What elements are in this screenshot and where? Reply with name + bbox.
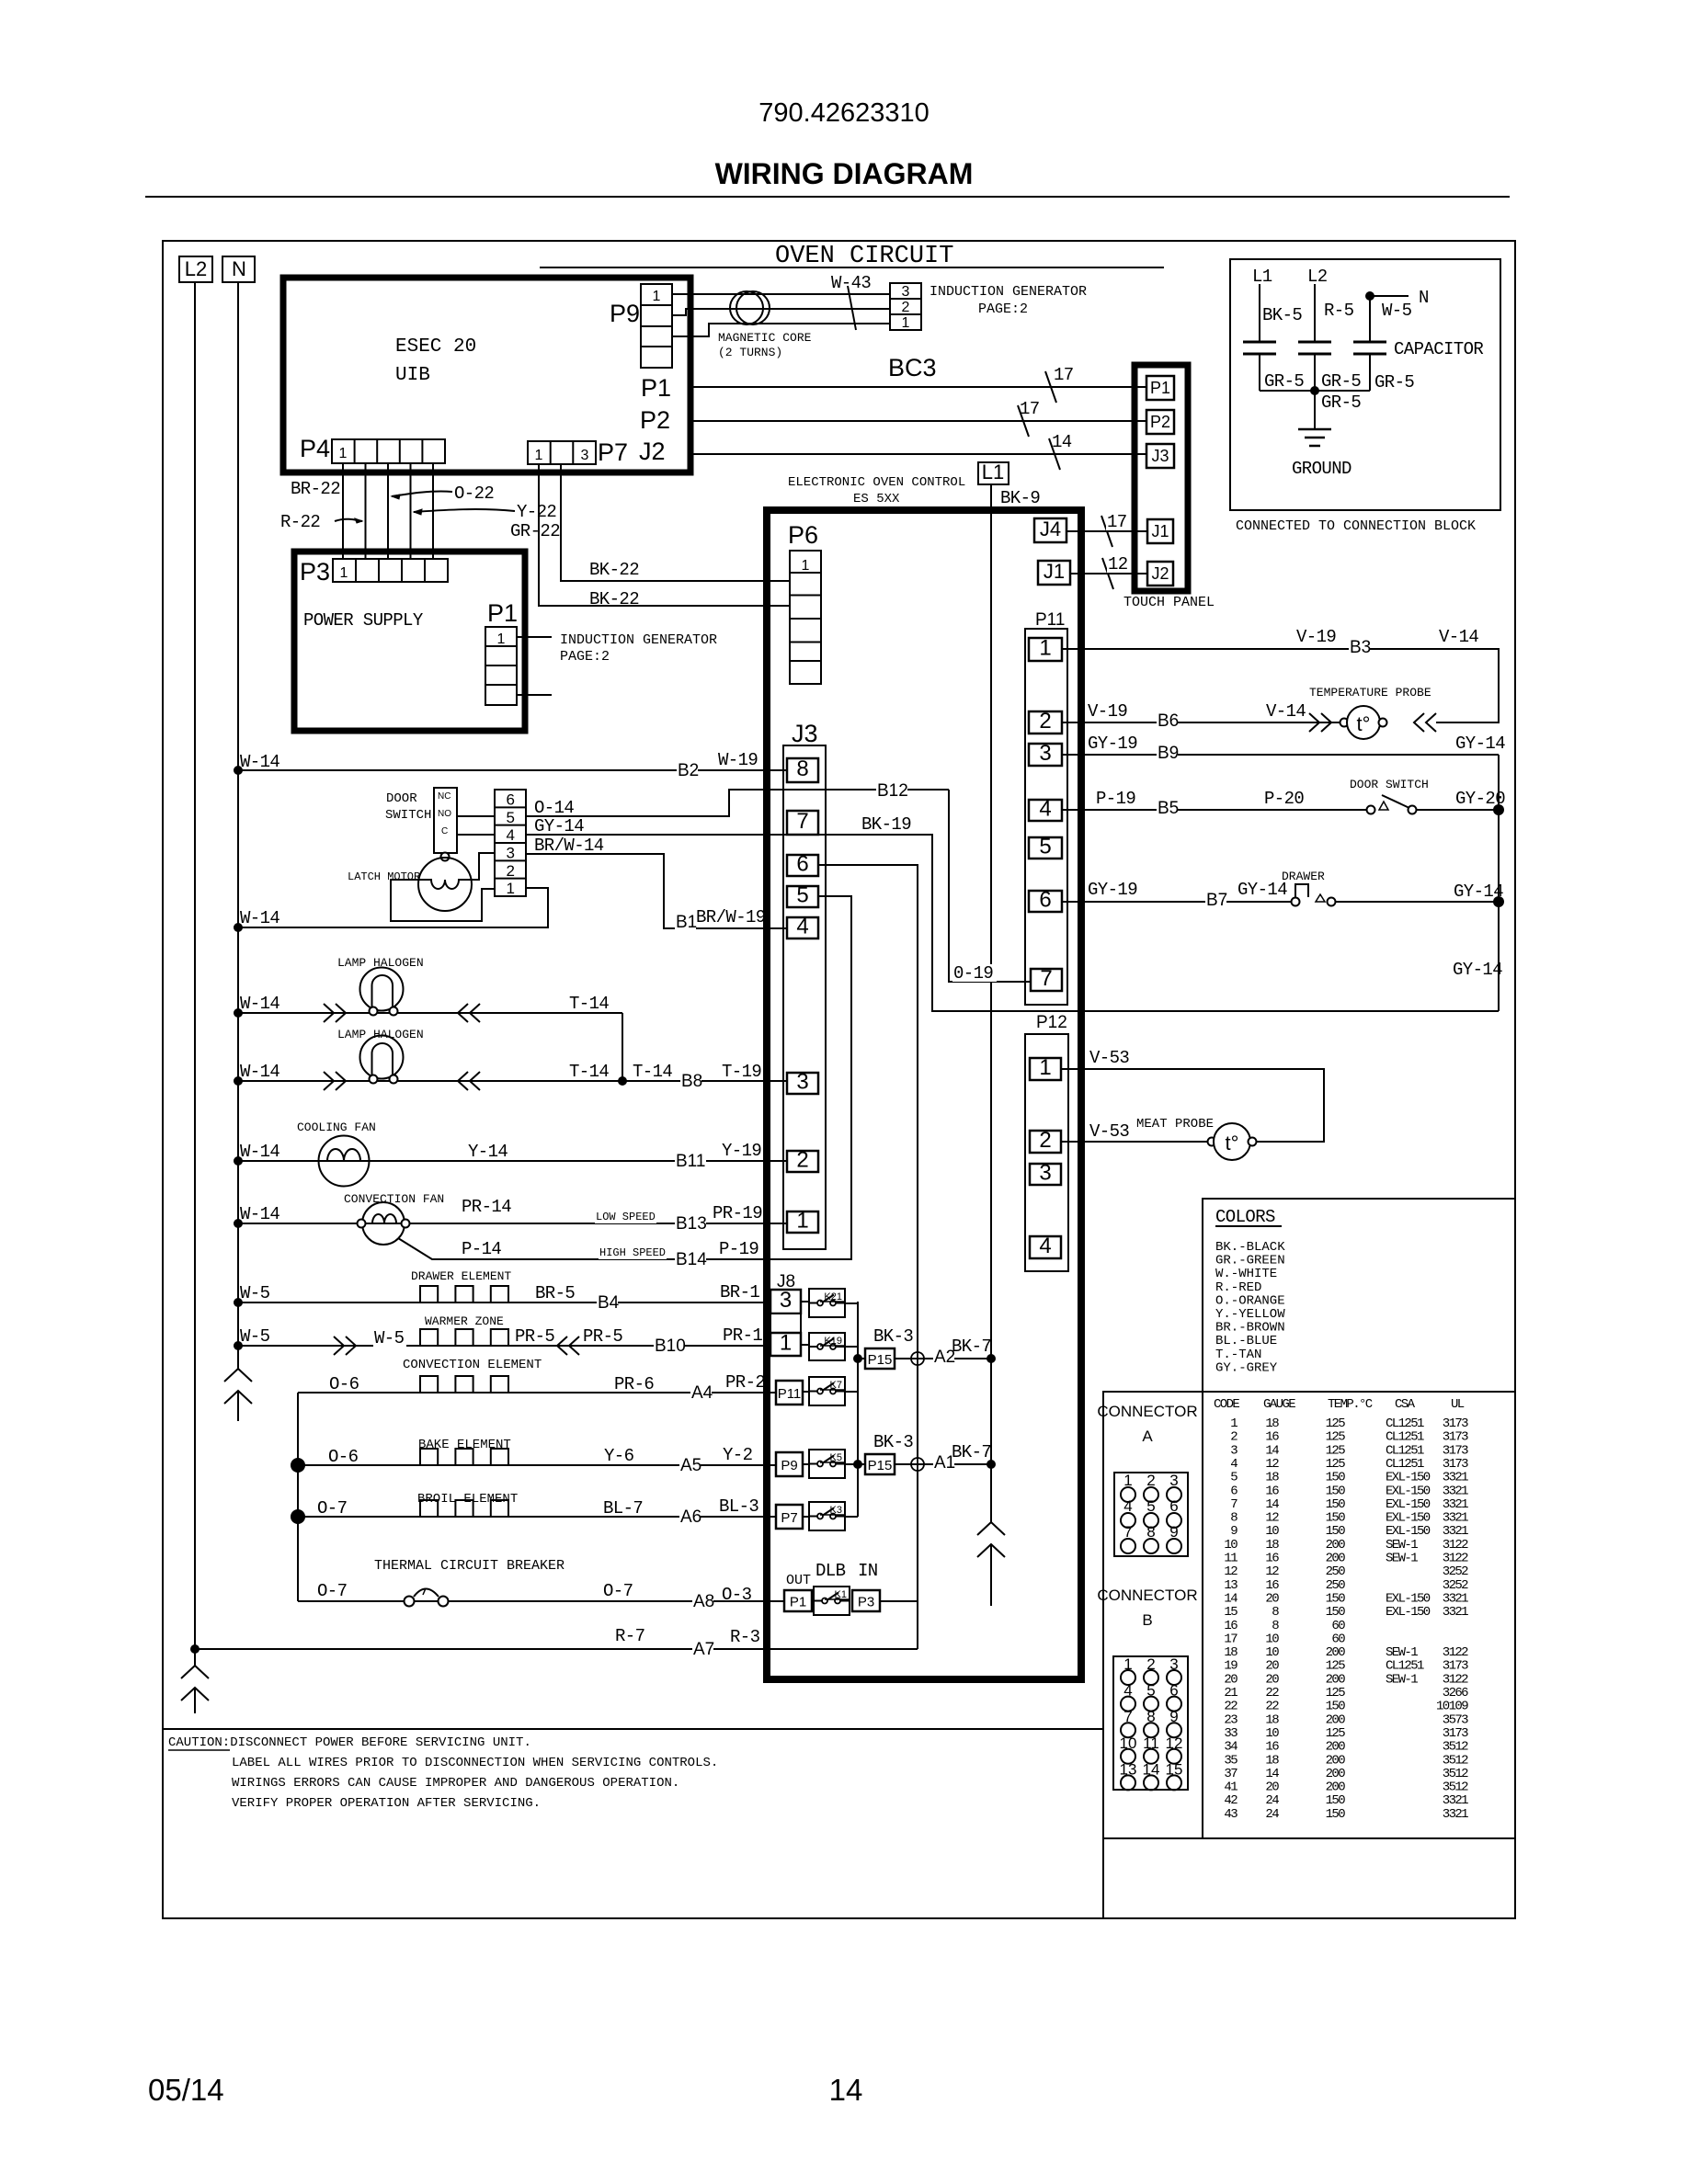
- svg-text:150: 150: [1326, 1793, 1346, 1808]
- svg-text:200: 200: [1326, 1780, 1346, 1795]
- svg-text:O-7: O-7: [317, 1498, 347, 1519]
- broil element heater: [420, 1500, 508, 1517]
- svg-text:11: 11: [1224, 1552, 1237, 1566]
- svg-text:CSA: CSA: [1395, 1397, 1416, 1412]
- svg-text:GR-5: GR-5: [1374, 372, 1414, 392]
- svg-text:4: 4: [796, 915, 808, 939]
- svg-text:18: 18: [1265, 1416, 1279, 1431]
- svg-text:3: 3: [1039, 741, 1051, 766]
- rail L2 end arrow: [194, 1649, 196, 1666]
- wire P11 pin4 P-19/B5/P-20 to door switch: [1062, 809, 1368, 811]
- svg-text:TEMP.°C: TEMP.°C: [1328, 1397, 1373, 1412]
- svg-text:3321: 3321: [1443, 1511, 1468, 1526]
- svg-text:250: 250: [1326, 1578, 1346, 1593]
- connector J8 pin 1: [770, 1333, 801, 1356]
- svg-text:P7: P7: [598, 438, 628, 466]
- wire B12 label: [876, 782, 907, 800]
- svg-text:3122: 3122: [1443, 1645, 1468, 1660]
- svg-text:7: 7: [1040, 966, 1052, 991]
- svg-text:6: 6: [507, 791, 515, 809]
- relay K1 (DLB): [814, 1587, 850, 1615]
- svg-text:12: 12: [1265, 1511, 1279, 1526]
- svg-text:19: 19: [1224, 1659, 1237, 1674]
- wire BR/W-14 from pin3 to J3 pin4: [526, 854, 787, 928]
- svg-text:1: 1: [497, 631, 506, 647]
- junction dot drawer GY-14: [1493, 896, 1504, 907]
- tick 17 on P2 wire: [1018, 405, 1029, 437]
- svg-text:GY-14: GY-14: [1453, 960, 1502, 980]
- splice chevrons lamp1 left: [324, 1004, 334, 1022]
- svg-text:05/14: 05/14: [148, 2073, 224, 2107]
- svg-text:GR.-GREEN: GR.-GREEN: [1215, 1254, 1285, 1268]
- svg-text:A6: A6: [680, 1507, 701, 1527]
- svg-text:BK-3: BK-3: [873, 1432, 913, 1452]
- svg-text:V-53: V-53: [1089, 1048, 1129, 1068]
- svg-text:15: 15: [1224, 1605, 1237, 1620]
- wire BK-22 lower from P7 pin1 to P6: [539, 464, 790, 606]
- svg-text:MEAT PROBE: MEAT PROBE: [1136, 1117, 1214, 1132]
- svg-text:B6: B6: [1158, 711, 1179, 731]
- connector P12 outer box: [1025, 1034, 1068, 1271]
- svg-text:12: 12: [1224, 1564, 1237, 1579]
- P12 pin 2: [1030, 1131, 1061, 1153]
- wire P1 pin1 stub: [517, 636, 552, 638]
- svg-text:22: 22: [1265, 1700, 1279, 1714]
- svg-text:12: 12: [1265, 1457, 1279, 1472]
- svg-text:125: 125: [1326, 1726, 1346, 1741]
- svg-text:LABEL ALL WIRES PRIOR TO DISCO: LABEL ALL WIRES PRIOR TO DISCONNECTION W…: [232, 1756, 718, 1770]
- svg-text:A8: A8: [693, 1592, 714, 1611]
- wire W-5 warmer zone row to J8 pin1: [238, 1345, 770, 1347]
- wire P12 pin2 V-53 to meat probe: [1061, 1141, 1208, 1143]
- svg-text:O.-ORANGE: O.-ORANGE: [1215, 1293, 1285, 1308]
- svg-text:EXL-150: EXL-150: [1386, 1591, 1431, 1606]
- caution area divider line: [163, 1728, 1103, 1730]
- svg-text:TOUCH PANEL: TOUCH PANEL: [1123, 595, 1215, 610]
- svg-text:GY-19: GY-19: [1088, 880, 1137, 900]
- svg-text:125: 125: [1326, 1457, 1346, 1472]
- splice chevrons lamp1 right: [458, 1004, 468, 1022]
- svg-text:24: 24: [1265, 1807, 1279, 1822]
- wire label A6: [679, 1508, 701, 1526]
- touch panel pin P2: [1146, 410, 1174, 434]
- svg-text:3173: 3173: [1443, 1430, 1468, 1445]
- svg-text:10: 10: [1224, 1538, 1237, 1553]
- cooling fan motor: [319, 1136, 370, 1187]
- pin box J1: [1038, 561, 1070, 585]
- relay K5: [809, 1450, 845, 1478]
- touch panel pin P1: [1146, 376, 1174, 400]
- svg-text:VERIFY PROPER OPERATION AFTER: VERIFY PROPER OPERATION AFTER SERVICING.: [232, 1796, 541, 1811]
- J3 pin 1: [787, 1211, 818, 1233]
- wire harness P4 to P3: [342, 463, 344, 559]
- svg-text:3173: 3173: [1443, 1726, 1468, 1741]
- connector J8 middle cell: [770, 1314, 801, 1333]
- wire P1 to touch panel P1: [690, 386, 1146, 388]
- connector table box: [1103, 1392, 1515, 1838]
- svg-text:2: 2: [507, 862, 515, 880]
- connector A grid box: [1114, 1473, 1188, 1556]
- svg-text:10: 10: [1265, 1632, 1279, 1646]
- svg-text:L2: L2: [185, 257, 207, 280]
- connector P1 cells (power supply): [485, 627, 517, 705]
- svg-text:3321: 3321: [1443, 1605, 1468, 1620]
- svg-text:1: 1: [535, 448, 543, 463]
- convection fan motor: [362, 1202, 405, 1245]
- svg-text:14: 14: [1224, 1591, 1237, 1606]
- svg-text:W-43: W-43: [831, 273, 871, 293]
- convection element heater: [420, 1376, 508, 1393]
- svg-text:BC3: BC3: [888, 354, 937, 381]
- svg-text:200: 200: [1326, 1753, 1346, 1768]
- svg-text:12: 12: [1108, 554, 1128, 574]
- induction generator connector cells: [890, 283, 921, 330]
- wire label PR-5 left: [514, 1327, 558, 1345]
- svg-text:V-53: V-53: [1089, 1121, 1129, 1142]
- svg-text:1: 1: [340, 565, 348, 581]
- svg-text:L2: L2: [1307, 267, 1328, 287]
- svg-text:V-19: V-19: [1088, 701, 1127, 722]
- svg-text:P-20: P-20: [1264, 789, 1304, 809]
- svg-text:6: 6: [1039, 888, 1051, 913]
- wire O-6 bake element row to P9 relay: [298, 1464, 776, 1466]
- svg-text:P9: P9: [610, 300, 640, 327]
- pin box P11 (relay K7 input): [776, 1381, 803, 1405]
- svg-text:14: 14: [1052, 432, 1072, 452]
- svg-text:P11: P11: [778, 1386, 802, 1402]
- svg-text:J3: J3: [792, 720, 818, 747]
- connector P4 cells: [332, 439, 445, 463]
- lamp halogen 2: [360, 1036, 404, 1079]
- connector P6 cells: [790, 551, 821, 684]
- svg-text:200: 200: [1326, 1645, 1346, 1660]
- svg-text:P6: P6: [788, 521, 818, 549]
- svg-text:Y-2: Y-2: [723, 1445, 753, 1465]
- junction dot lamp rows: [618, 1076, 627, 1086]
- P11 pin 2: [1029, 711, 1062, 734]
- pin box P9 (relay K5 input): [776, 1452, 803, 1476]
- svg-text:O-3: O-3: [722, 1585, 752, 1605]
- svg-text:B7: B7: [1206, 891, 1227, 910]
- svg-text:B12: B12: [877, 781, 908, 801]
- svg-text:C: C: [441, 826, 448, 836]
- svg-text:J3: J3: [1151, 447, 1169, 465]
- svg-text:(2 TURNS): (2 TURNS): [718, 346, 782, 359]
- svg-text:CL1251: CL1251: [1386, 1457, 1424, 1472]
- wire J8 pin3 to relay K21: [801, 1301, 809, 1302]
- svg-text:P-19: P-19: [1096, 789, 1135, 809]
- svg-text:CAPACITOR: CAPACITOR: [1394, 339, 1483, 359]
- wire C1 to ground bus: [1259, 354, 1260, 391]
- svg-text:A5: A5: [680, 1456, 701, 1475]
- svg-text:BK-7: BK-7: [952, 1442, 991, 1462]
- pin box J4: [1034, 518, 1066, 542]
- svg-text:EXL-150: EXL-150: [1386, 1524, 1431, 1539]
- wire O-14 from pin5 to B12: [526, 790, 949, 816]
- svg-text:O-7: O-7: [603, 1581, 633, 1601]
- svg-text:17: 17: [1107, 512, 1127, 532]
- svg-text:1: 1: [780, 1331, 792, 1356]
- J3 pin 4: [787, 917, 818, 938]
- svg-text:18: 18: [1265, 1471, 1279, 1485]
- svg-text:DOOR SWITCH: DOOR SWITCH: [1350, 778, 1429, 791]
- relay K3: [809, 1502, 845, 1530]
- svg-text:GR-5: GR-5: [1321, 392, 1361, 413]
- svg-text:PR-19: PR-19: [713, 1203, 762, 1223]
- outer border frame: [163, 241, 1515, 1918]
- splice chevrons lamp2 left: [324, 1072, 334, 1090]
- svg-text:EXL-150: EXL-150: [1386, 1497, 1431, 1512]
- svg-text:T-14: T-14: [633, 1062, 672, 1082]
- svg-text:W-5: W-5: [374, 1328, 405, 1348]
- svg-text:Y-6: Y-6: [604, 1446, 634, 1466]
- svg-text:200: 200: [1326, 1672, 1346, 1687]
- svg-text:T-19: T-19: [722, 1062, 761, 1082]
- svg-text:CL1251: CL1251: [1386, 1430, 1424, 1445]
- temperature probe: [1340, 719, 1349, 727]
- svg-text:BK-7: BK-7: [952, 1337, 991, 1357]
- svg-text:16: 16: [1265, 1484, 1279, 1498]
- svg-text:GY-14: GY-14: [534, 816, 584, 836]
- rail BK-7 junction dot A2: [987, 1354, 996, 1363]
- svg-text:17: 17: [1054, 365, 1074, 385]
- svg-text:OUT: OUT: [786, 1573, 811, 1588]
- svg-text:200: 200: [1326, 1767, 1346, 1781]
- svg-text:1: 1: [1230, 1416, 1237, 1431]
- J3 pin 6: [787, 855, 818, 876]
- svg-text:24: 24: [1265, 1793, 1279, 1808]
- svg-text:CONNECTOR: CONNECTOR: [1097, 1587, 1197, 1604]
- wire label W-5 mid: [373, 1329, 406, 1347]
- svg-text:CL1251: CL1251: [1386, 1659, 1424, 1674]
- wire J2 to touch panel J3: [690, 453, 1146, 455]
- svg-text:150: 150: [1326, 1700, 1346, 1714]
- capacitor C3 plates: [1353, 341, 1386, 344]
- svg-text:200: 200: [1326, 1712, 1346, 1727]
- svg-text:CAUTION:DISCONNECT POWER BEFOR: CAUTION:DISCONNECT POWER BEFORE SERVICIN…: [168, 1735, 531, 1750]
- touch panel pin J2: [1147, 562, 1173, 586]
- svg-text:20: 20: [1265, 1780, 1279, 1795]
- P11 pin 6: [1029, 891, 1062, 912]
- svg-text:23: 23: [1224, 1712, 1237, 1727]
- wire P9 pin2 to induction generator pin2: [672, 309, 890, 315]
- svg-text:3173: 3173: [1443, 1416, 1468, 1431]
- svg-text:INDUCTION GENERATOR: INDUCTION GENERATOR: [930, 284, 1087, 300]
- svg-text:P2: P2: [1150, 413, 1170, 431]
- svg-text:125: 125: [1326, 1659, 1346, 1674]
- svg-text:3512: 3512: [1443, 1753, 1468, 1768]
- svg-text:4: 4: [1039, 1234, 1051, 1258]
- svg-text:BR/W-14: BR/W-14: [534, 836, 604, 856]
- svg-text:20: 20: [1224, 1672, 1237, 1687]
- svg-text:150: 150: [1326, 1471, 1346, 1485]
- svg-text:P2: P2: [640, 406, 670, 434]
- wire P9 to relay K5: [803, 1463, 809, 1465]
- splice chevrons lamp2 right: [458, 1072, 468, 1090]
- svg-text:R-3: R-3: [730, 1627, 760, 1647]
- pin box P15 upper: [865, 1348, 895, 1369]
- pin box P7 (relay K3 input): [776, 1505, 803, 1529]
- svg-text:16: 16: [1265, 1740, 1279, 1755]
- wire label B4: [597, 1294, 618, 1312]
- connector P11 outer box: [1025, 629, 1067, 1005]
- svg-text:3321: 3321: [1443, 1484, 1468, 1498]
- svg-text:ES 5XX: ES 5XX: [853, 492, 900, 506]
- svg-text:1: 1: [802, 558, 810, 574]
- bus junction dot broil: [291, 1509, 305, 1524]
- drawer switch symbol: [1292, 898, 1300, 906]
- svg-text:18: 18: [1265, 1712, 1279, 1727]
- svg-text:W-14: W-14: [240, 1204, 279, 1224]
- svg-text:3122: 3122: [1443, 1672, 1468, 1687]
- wire W-14 / B2 / W-19 to J3 pin 8: [238, 769, 787, 771]
- svg-text:DRAWER: DRAWER: [1282, 870, 1325, 883]
- svg-text:ELECTRONIC OVEN CONTROL: ELECTRONIC OVEN CONTROL: [788, 475, 965, 490]
- svg-text:BR-5: BR-5: [535, 1283, 575, 1303]
- svg-text:P-14: P-14: [462, 1239, 501, 1259]
- svg-text:J1: J1: [1044, 560, 1065, 583]
- svg-text:125: 125: [1326, 1416, 1346, 1431]
- svg-text:43: 43: [1224, 1807, 1237, 1822]
- wire P15 lower to BK-7 rail / A1: [895, 1463, 991, 1465]
- svg-text:18: 18: [1265, 1538, 1279, 1553]
- svg-text:GROUND: GROUND: [1292, 459, 1352, 479]
- svg-text:B8: B8: [681, 1072, 702, 1091]
- wire BK-3 bus to P15 upper: [858, 1358, 865, 1359]
- svg-text:17: 17: [1020, 399, 1040, 419]
- svg-text:P1: P1: [487, 599, 518, 627]
- junction dot GY-20: [1493, 804, 1504, 815]
- svg-text:3321: 3321: [1443, 1471, 1468, 1485]
- svg-text:CODE: CODE: [1214, 1397, 1239, 1412]
- terminal box N: [222, 256, 255, 282]
- svg-text:INDUCTION GENERATOR: INDUCTION GENERATOR: [560, 632, 717, 648]
- wire R-7 / A7 / R-3 row: [194, 1648, 918, 1650]
- svg-text:ESEC 20: ESEC 20: [395, 336, 476, 358]
- wire P7 to relay K3: [803, 1516, 809, 1518]
- svg-text:T-14: T-14: [569, 1062, 609, 1082]
- svg-text:3122: 3122: [1443, 1538, 1468, 1553]
- wire door switch C to connector pin4: [457, 834, 495, 836]
- svg-text:L1: L1: [982, 461, 1004, 483]
- connector J8 pin 3: [770, 1290, 801, 1314]
- svg-text:R.-RED: R.-RED: [1215, 1280, 1261, 1295]
- svg-text:t°: t°: [1226, 1132, 1239, 1155]
- svg-text:42: 42: [1224, 1793, 1237, 1808]
- wire J1 to touch panel J2: [1070, 573, 1147, 574]
- electronic oven control box: [767, 510, 1081, 1679]
- wire J4 to touch panel J1: [1066, 530, 1147, 532]
- wire label PR-5 right: [582, 1327, 626, 1345]
- svg-text:250: 250: [1326, 1564, 1346, 1579]
- svg-text:WIRINGS ERRORS CAN CAUSE IMPRO: WIRINGS ERRORS CAN CAUSE IMPROPER AND DA…: [232, 1776, 679, 1791]
- svg-text:1: 1: [1039, 636, 1051, 661]
- svg-text:3: 3: [796, 1070, 808, 1095]
- node N junction dot: [1365, 291, 1374, 301]
- svg-text:GY.-GREY: GY.-GREY: [1215, 1360, 1278, 1375]
- svg-text:8: 8: [1272, 1605, 1279, 1620]
- wire J8 pin1 to relay K19: [801, 1344, 809, 1346]
- svg-text:O-7: O-7: [317, 1581, 347, 1601]
- svg-text:P15: P15: [868, 1458, 893, 1473]
- svg-text:125: 125: [1326, 1686, 1346, 1701]
- wire B12 vertical to O-19 / P11 pin7: [949, 790, 1031, 982]
- wire label B11: [675, 1153, 706, 1170]
- rail L2 vertical wire: [194, 282, 196, 1649]
- svg-text:13: 13: [1224, 1578, 1237, 1593]
- wire label B10: [654, 1337, 685, 1355]
- svg-text:0-19: 0-19: [953, 963, 993, 984]
- lamp halogen 1: [360, 968, 404, 1011]
- svg-text:BL-7: BL-7: [603, 1498, 643, 1519]
- svg-text:9: 9: [1230, 1524, 1237, 1539]
- wire N stub: [1370, 295, 1409, 297]
- svg-text:BR/W-19: BR/W-19: [696, 907, 766, 927]
- wire GY-14 from pin4 across to right rail: [526, 835, 1499, 1011]
- svg-text:P1: P1: [1150, 379, 1170, 397]
- pin box P1 (DLB out): [784, 1590, 812, 1611]
- svg-text:4: 4: [1039, 797, 1051, 822]
- svg-text:BK-19: BK-19: [861, 814, 911, 835]
- svg-text:N: N: [232, 257, 246, 280]
- svg-text:THERMAL CIRCUIT BREAKER: THERMAL CIRCUIT BREAKER: [374, 1558, 565, 1574]
- wire W-14 cooling fan row to J3 pin2: [238, 1160, 787, 1162]
- crossover at A2 row: [911, 1352, 924, 1365]
- svg-text:J2: J2: [1151, 564, 1169, 583]
- splice chevrons temp probe right: [1414, 713, 1424, 732]
- svg-text:3321: 3321: [1443, 1591, 1468, 1606]
- svg-text:GY-14: GY-14: [1455, 734, 1505, 754]
- wire W-14 lamp1 row: [238, 1012, 622, 1014]
- svg-text:16: 16: [1265, 1552, 1279, 1566]
- wire door switch to rail GY-20: [1416, 809, 1499, 811]
- splice chevrons temp probe left: [1309, 713, 1319, 732]
- svg-text:20: 20: [1265, 1591, 1279, 1606]
- svg-text:LOW SPEED: LOW SPEED: [596, 1211, 656, 1223]
- svg-text:1: 1: [339, 446, 348, 461]
- P11 pin 5: [1029, 837, 1062, 859]
- svg-text:B13: B13: [676, 1214, 707, 1234]
- wire K19 to BK-3 bus: [845, 1346, 858, 1348]
- svg-text:16: 16: [1265, 1578, 1279, 1593]
- svg-text:N: N: [1419, 288, 1429, 308]
- tick 14 on J2 wire: [1049, 438, 1060, 470]
- svg-text:BK-22: BK-22: [589, 589, 639, 609]
- wire W-14 convection fan row to J3 pin1: [238, 1223, 787, 1224]
- P11 pin 7: [1031, 969, 1062, 991]
- svg-text:14: 14: [1265, 1443, 1279, 1458]
- svg-text:17: 17: [1224, 1632, 1237, 1646]
- svg-text:3321: 3321: [1443, 1524, 1468, 1539]
- svg-text:B11: B11: [676, 1152, 705, 1171]
- svg-text:8: 8: [1230, 1511, 1237, 1526]
- svg-text:CL1251: CL1251: [1386, 1416, 1424, 1431]
- wire to ground symbol: [1314, 391, 1316, 429]
- svg-text:OVEN CIRCUIT: OVEN CIRCUIT: [775, 243, 953, 270]
- svg-text:LATCH MOTOR: LATCH MOTOR: [348, 870, 420, 883]
- svg-text:W-14: W-14: [240, 994, 279, 1014]
- bus junction dot bake: [291, 1458, 305, 1473]
- svg-text:5: 5: [1230, 1471, 1237, 1485]
- svg-text:EXL-150: EXL-150: [1386, 1605, 1431, 1620]
- svg-text:IN: IN: [858, 1561, 878, 1581]
- J3 pin 2: [787, 1151, 818, 1172]
- svg-text:LAMP HALOGEN: LAMP HALOGEN: [337, 1028, 424, 1041]
- svg-text:14: 14: [829, 2073, 863, 2107]
- capacitor circuit box: [1230, 259, 1500, 510]
- svg-text:DRAWER ELEMENT: DRAWER ELEMENT: [411, 1269, 511, 1283]
- svg-text:EXL-150: EXL-150: [1386, 1484, 1431, 1498]
